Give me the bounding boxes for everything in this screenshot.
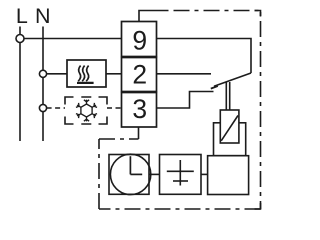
wire terminal 9 to enclosure top xyxy=(139,11,169,22)
wire L node to terminal 9 xyxy=(24,38,122,40)
heater load (floor heating) xyxy=(67,60,106,87)
wire terminal 3 to cooling contact xyxy=(157,92,214,109)
node L terminal xyxy=(16,35,24,43)
wire L vertical xyxy=(19,27,21,142)
wire terminal 2 to heating contact xyxy=(157,73,212,75)
wax motor body xyxy=(208,156,249,195)
svg-text:L: L xyxy=(16,4,28,28)
battery (backup cell) xyxy=(160,155,202,195)
terminal 3 xyxy=(122,93,157,128)
node N cooling tap xyxy=(39,104,46,111)
thermal actuator element xyxy=(220,110,239,143)
wire terminal 3 to enclosure xyxy=(138,127,140,139)
svg-text:9: 9 xyxy=(132,25,147,55)
wire terminal 9 to switch common xyxy=(157,39,252,74)
switch blade (changeover contact) xyxy=(211,73,251,89)
node N heating tap xyxy=(39,70,46,77)
wire cooler to terminal 3 (dashed) xyxy=(107,107,122,109)
svg-text:N: N xyxy=(35,4,51,28)
wire heater to terminal 2 xyxy=(106,73,122,75)
enclosure (device outline, dash-dot) xyxy=(99,11,261,210)
enclosure corner joints xyxy=(255,11,261,210)
cooling load (optional, dashed outline) xyxy=(65,97,107,124)
clock (time switch) xyxy=(109,154,151,194)
wire N node to cooler (dashed) xyxy=(47,107,65,109)
wire N vertical xyxy=(42,27,44,142)
wire battery to wax motor xyxy=(201,173,208,175)
actuator holder xyxy=(214,123,246,156)
actuator plunger xyxy=(226,82,229,110)
wire N node to heater xyxy=(47,73,67,75)
wire clock to battery xyxy=(149,173,160,175)
terminal 2 xyxy=(122,58,157,92)
terminal 9 xyxy=(122,22,157,57)
svg-text:2: 2 xyxy=(132,60,147,90)
svg-text:3: 3 xyxy=(132,94,147,124)
